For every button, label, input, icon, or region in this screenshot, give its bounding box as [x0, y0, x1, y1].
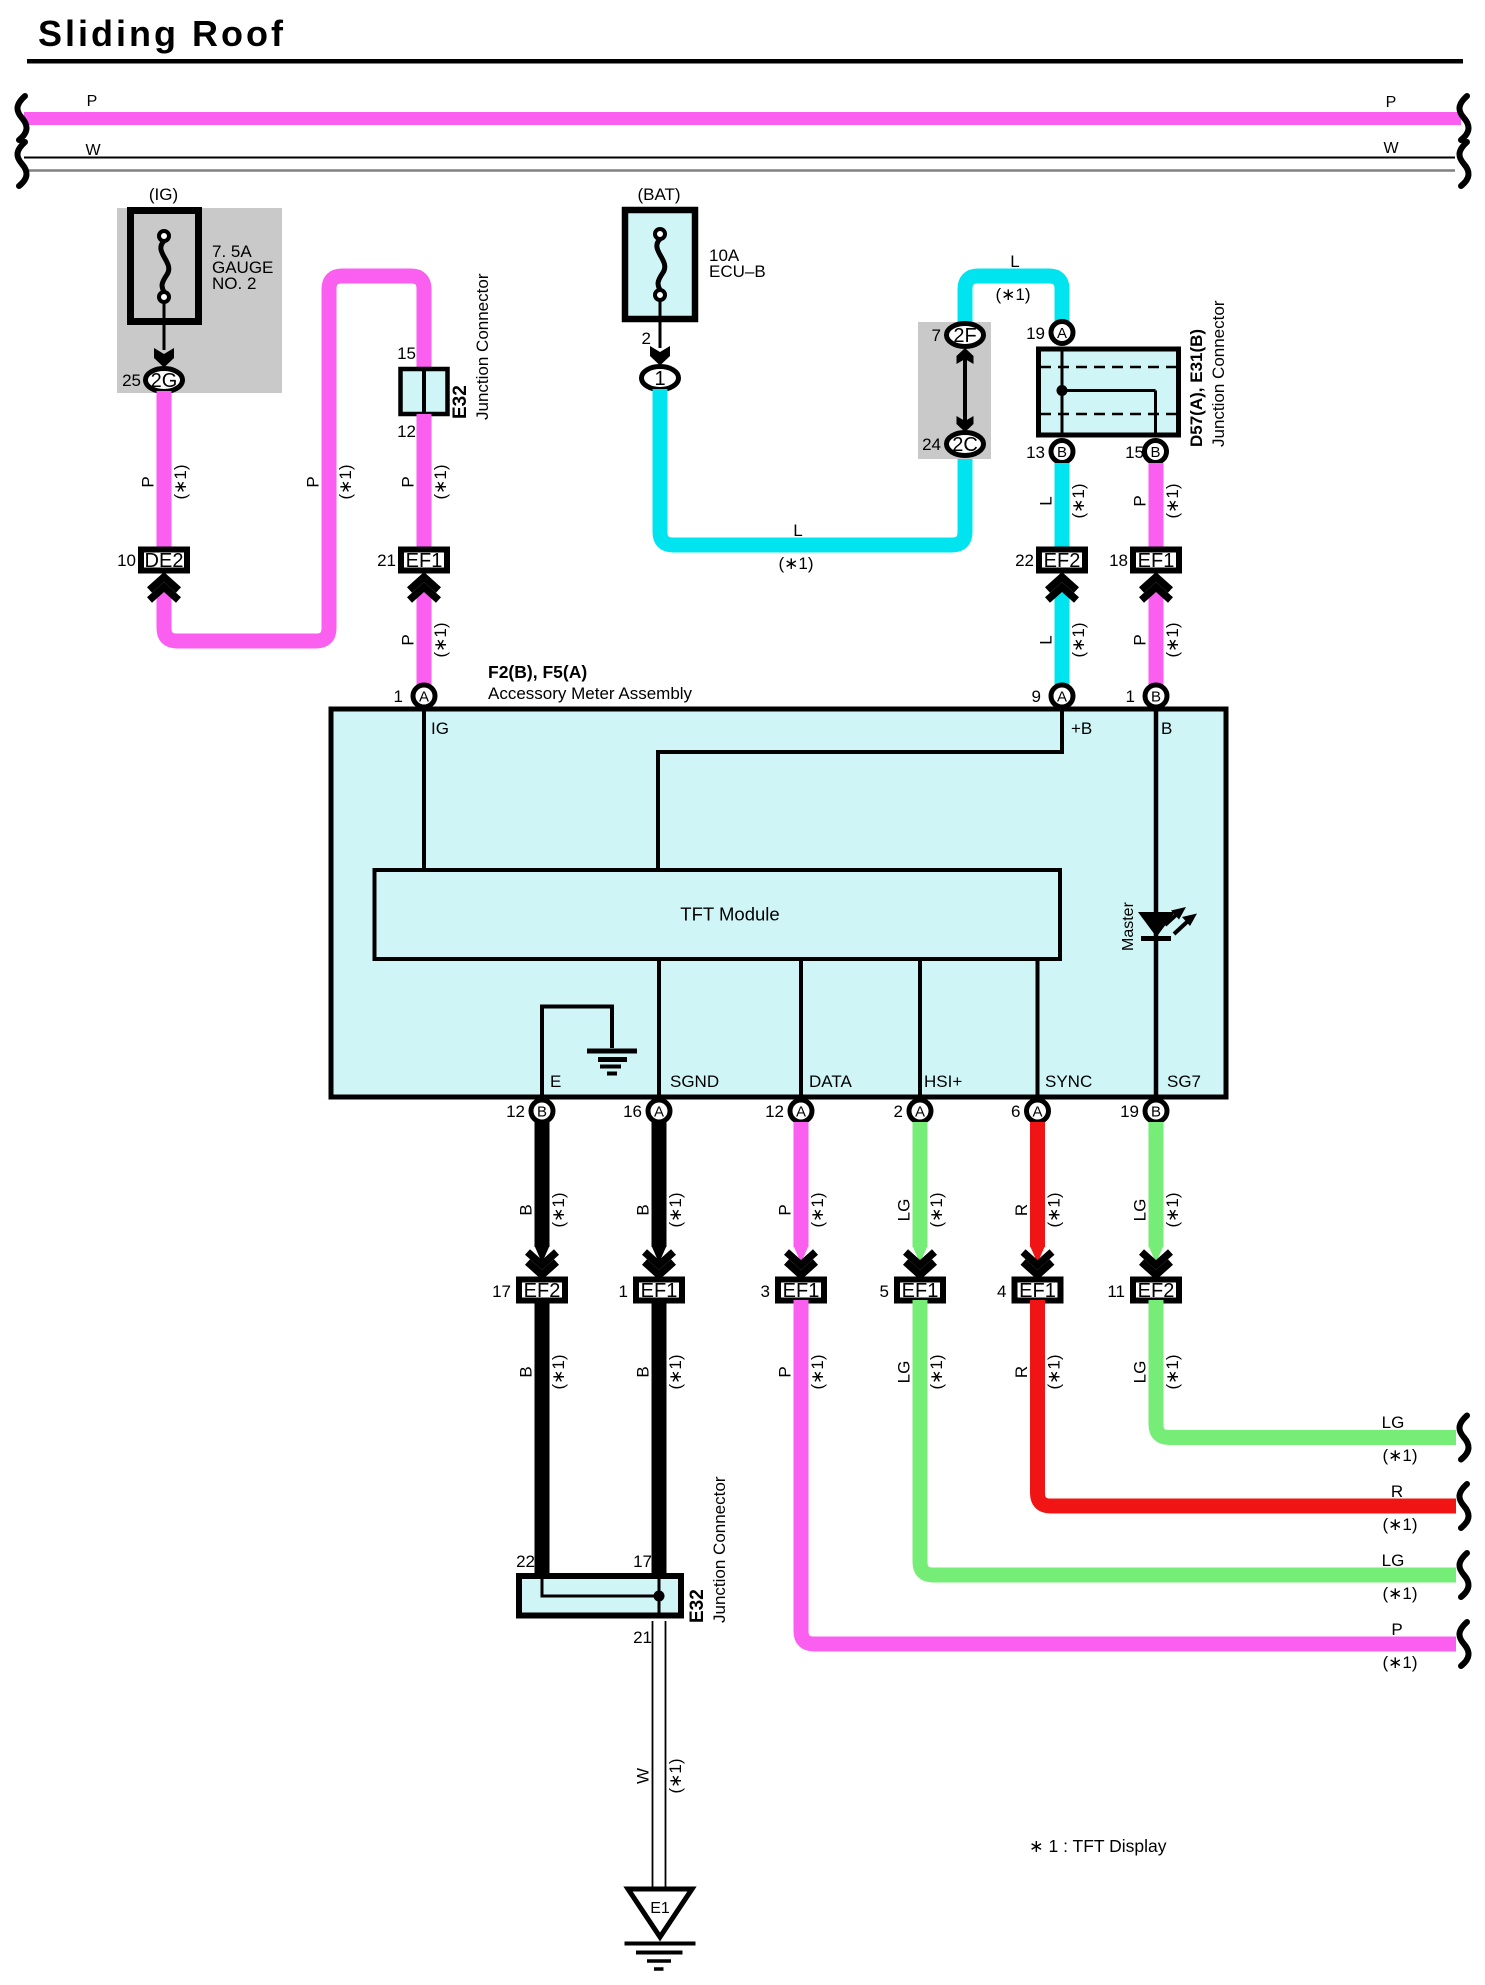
svg-text:(∗1): (∗1): [1069, 483, 1088, 518]
pin label 10: [117, 551, 136, 570]
svg-text:R: R: [1012, 1204, 1031, 1216]
svg-text:4: 4: [997, 1282, 1006, 1301]
arrow into oval 1: [650, 346, 670, 366]
pin circle 16 A: [648, 1100, 670, 1122]
label W right: [1383, 140, 1399, 157]
svg-text:L: L: [1010, 252, 1019, 271]
svg-text:A: A: [654, 1104, 664, 1121]
break symbol P left: [17, 96, 26, 140]
break symbol R: [1459, 1484, 1468, 1528]
gray panel IG: [117, 208, 282, 393]
label D57(A) E31(B): [1187, 329, 1206, 447]
svg-text:18: 18: [1109, 551, 1128, 570]
chevron EF2 11: [1142, 1252, 1171, 1275]
pin circle 1 A: [413, 685, 435, 707]
label E32 top: [450, 385, 471, 419]
svg-text:P: P: [87, 93, 98, 110]
connector EF2 11: [1133, 1280, 1179, 1303]
svg-text:L: L: [1037, 496, 1056, 505]
accessory meter assembly box: [331, 709, 1226, 1097]
svg-text:LG: LG: [1131, 1199, 1150, 1222]
svg-text:EF2: EF2: [524, 1280, 561, 1302]
svg-text:Sliding Roof: Sliding Roof: [38, 13, 286, 54]
svg-text:∗ 1 : TFT Display: ∗ 1 : TFT Display: [1029, 1836, 1167, 1856]
svg-text:(BAT): (BAT): [637, 185, 680, 204]
svg-text:A: A: [1057, 325, 1067, 342]
junction connector E32 top: [401, 369, 448, 414]
internal wire SYNC: [1036, 961, 1040, 1095]
pin label 17: [492, 1282, 511, 1301]
labels R (*1) SYNC right: [1382, 1482, 1417, 1534]
chevron EF1 21: [410, 577, 439, 600]
labels P (*1) seg1: [139, 464, 191, 499]
label F2(B) F5(A): [488, 662, 587, 682]
labels L (*1) top: [995, 252, 1030, 304]
svg-text:P: P: [1386, 94, 1397, 111]
svg-text:3: 3: [761, 1282, 770, 1301]
internal wire HSI+: [918, 961, 922, 1095]
label (BAT): [637, 185, 680, 204]
fuse value label: [212, 242, 273, 293]
svg-text:B: B: [1151, 689, 1161, 706]
wire W E32 to E1: [653, 1621, 666, 1889]
svg-text:10: 10: [117, 551, 136, 570]
labels P wire DATA upper: [776, 1192, 828, 1227]
svg-text:11: 11: [1107, 1282, 1125, 1301]
labels L (*1) seg6: [1037, 622, 1089, 657]
svg-text:P: P: [776, 1366, 795, 1377]
break symbol W right: [1459, 142, 1468, 186]
svg-text:EF1: EF1: [902, 1280, 939, 1302]
wire LG SG7 to edge: [1156, 1300, 1456, 1438]
svg-text:A: A: [796, 1104, 806, 1121]
pin label 21: [377, 551, 396, 570]
svg-text:B: B: [1150, 444, 1160, 461]
svg-text:A: A: [1057, 689, 1067, 706]
svg-text:D57(A), E31(B): D57(A), E31(B): [1187, 329, 1206, 447]
svg-text:1: 1: [619, 1282, 628, 1301]
svg-text:A: A: [1032, 1104, 1042, 1121]
svg-text:SG7: SG7: [1167, 1072, 1201, 1091]
internal wire B SG7: [1154, 711, 1159, 1095]
svg-text:P: P: [399, 634, 418, 645]
labels LG wire HSI+ upper: [895, 1192, 947, 1227]
svg-text:(∗1): (∗1): [808, 1354, 827, 1389]
pin circle 2 A: [909, 1100, 931, 1122]
svg-text:B: B: [1161, 719, 1172, 738]
svg-text:IG: IG: [431, 719, 449, 738]
pin label 19 B: [1120, 1102, 1139, 1121]
svg-text:B: B: [634, 1204, 653, 1215]
svg-text:17: 17: [492, 1282, 511, 1301]
internal wire SGND: [657, 961, 661, 1095]
svg-text:E32: E32: [450, 385, 471, 419]
pin circle 15 B: [1145, 441, 1167, 463]
pin oval 1: [642, 367, 679, 391]
svg-text:(∗1): (∗1): [1045, 1354, 1064, 1389]
pin circle 19 B: [1145, 1100, 1167, 1122]
svg-text:(∗1): (∗1): [1163, 1354, 1182, 1389]
pin label 21 E32: [633, 1628, 652, 1647]
svg-text:P: P: [776, 1204, 795, 1215]
chevron EF1 5: [906, 1252, 935, 1275]
svg-text:DE2: DE2: [145, 550, 184, 572]
break symbol P right: [1459, 96, 1468, 140]
label HSI+: [924, 1072, 962, 1091]
svg-text:5: 5: [880, 1282, 889, 1301]
label (IG): [149, 185, 178, 204]
svg-text:P: P: [399, 476, 418, 487]
svg-text:EF2: EF2: [1044, 550, 1081, 572]
svg-text:P: P: [139, 476, 158, 487]
pin label 24: [922, 435, 941, 454]
wire L 2F to 19A: [965, 276, 1062, 330]
label DATA: [809, 1072, 852, 1091]
svg-text:B: B: [634, 1366, 653, 1377]
label E: [550, 1072, 561, 1091]
pin label 11: [1107, 1282, 1125, 1301]
pin label 1 A: [394, 687, 403, 706]
svg-text:LG: LG: [1382, 1551, 1405, 1570]
svg-text:B: B: [517, 1366, 536, 1377]
svg-text:LG: LG: [1131, 1361, 1150, 1384]
pin circle 1 B: [1145, 685, 1167, 707]
labels LG (*1) HSI+ lower: [895, 1354, 947, 1389]
connector EF2 22: [1039, 550, 1085, 573]
svg-text:(∗1): (∗1): [666, 1192, 685, 1227]
pin circle 6 A: [1027, 1100, 1049, 1122]
chevron EF1 4: [1023, 1252, 1052, 1275]
wire L oval1 to 2C: [660, 389, 965, 545]
chevron EF1 3: [787, 1252, 816, 1275]
connector EF1 21: [401, 550, 447, 573]
chevron DE2: [150, 577, 179, 600]
svg-text:(∗1): (∗1): [1382, 1653, 1417, 1672]
svg-text:R: R: [1391, 1482, 1403, 1501]
fuse 10A ECU-B box: [625, 210, 695, 319]
svg-text:A: A: [915, 1104, 925, 1121]
junction connector E32 bottom: [519, 1576, 681, 1618]
wire P EF1 to pin 1A: [417, 583, 431, 685]
svg-text:Junction Connector: Junction Connector: [1209, 300, 1228, 447]
labels R wire SYNC upper: [1012, 1192, 1064, 1227]
pin label 17 E32: [633, 1552, 652, 1571]
svg-text:EF1: EF1: [1138, 550, 1175, 572]
wire fuse BAT to oval: [659, 300, 662, 348]
label Junction Connector D57: [1209, 300, 1228, 447]
label Master: [1120, 901, 1137, 951]
label Junction Connector bottom: [710, 1476, 729, 1623]
label SYNC: [1045, 1072, 1092, 1091]
svg-text:TFT Module: TFT Module: [680, 904, 779, 925]
svg-text:(∗1): (∗1): [927, 1354, 946, 1389]
svg-text:(∗1): (∗1): [1382, 1515, 1417, 1534]
connector EF1 18: [1133, 550, 1179, 573]
wire L EF2 to 9A: [1055, 583, 1069, 685]
pin label 15 D57: [1125, 443, 1144, 462]
svg-text:LG: LG: [1382, 1413, 1405, 1432]
labels P (*1) seg2: [304, 464, 356, 499]
label +B: [1071, 719, 1092, 738]
svg-text:B: B: [1057, 444, 1067, 461]
pin label 13: [1026, 443, 1045, 462]
note TFT Display: [1029, 1836, 1167, 1856]
label IG: [431, 719, 449, 738]
pin label 5: [880, 1282, 889, 1301]
pin label 12 B: [506, 1102, 525, 1121]
pin label 4: [997, 1282, 1006, 1301]
labels R (*1) SYNC lower: [1012, 1354, 1064, 1389]
labels P (*1) seg7: [1131, 483, 1183, 518]
svg-text:1: 1: [654, 368, 665, 390]
svg-text:SYNC: SYNC: [1045, 1072, 1092, 1091]
fuse value label BAT: [709, 246, 766, 281]
labels P (*1) seg8: [1131, 622, 1183, 657]
svg-text:W: W: [85, 142, 101, 159]
svg-text:E32: E32: [687, 1589, 708, 1623]
pin circle 13 B: [1051, 441, 1073, 463]
label P right: [1386, 94, 1397, 111]
labels P (*1) DATA right: [1382, 1620, 1417, 1672]
wire R SYNC to edge: [1038, 1300, 1457, 1506]
internal wire IG: [422, 711, 426, 868]
arrow into 2G: [154, 348, 174, 368]
svg-text:B: B: [1151, 1104, 1161, 1121]
svg-text:12: 12: [765, 1102, 784, 1121]
svg-text:(∗1): (∗1): [171, 464, 190, 499]
svg-text:P: P: [1131, 634, 1150, 645]
svg-text:(∗1): (∗1): [549, 1354, 568, 1389]
pin circle 12 A: [790, 1100, 812, 1122]
pin label 1 B: [1126, 687, 1135, 706]
labels P (*1) seg3: [399, 464, 451, 499]
svg-text:6: 6: [1011, 1102, 1020, 1121]
chevron EF1 18: [1142, 577, 1171, 600]
svg-text:(∗1): (∗1): [927, 1192, 946, 1227]
break symbol W left: [17, 142, 26, 186]
pin label 1: [619, 1282, 628, 1301]
svg-text:(∗1): (∗1): [431, 622, 450, 657]
ground E1: [628, 1889, 692, 1937]
svg-text:HSI+: HSI+: [924, 1072, 962, 1091]
svg-text:16: 16: [623, 1102, 642, 1121]
wire P DATA to edge: [801, 1300, 1456, 1644]
connector EF2 17: [519, 1280, 565, 1303]
pin label 12 E32: [397, 422, 416, 441]
svg-text:ECU–B: ECU–B: [709, 262, 766, 281]
svg-text:17: 17: [633, 1552, 652, 1571]
labels LG (*1) SG7 right: [1382, 1413, 1418, 1465]
pin label 22: [1015, 551, 1034, 570]
svg-text:(∗1): (∗1): [778, 554, 813, 573]
svg-text:(∗1): (∗1): [1382, 1446, 1417, 1465]
svg-text:2C: 2C: [952, 434, 978, 456]
wire L 13B to EF2: [1055, 463, 1070, 547]
svg-text:LG: LG: [895, 1361, 914, 1384]
svg-text:B: B: [537, 1104, 547, 1121]
svg-text:+B: +B: [1071, 719, 1092, 738]
svg-text:L: L: [1037, 635, 1056, 644]
internal wire +B: [658, 711, 1062, 868]
svg-text:24: 24: [922, 435, 941, 454]
pin label 25: [122, 371, 141, 390]
svg-text:9: 9: [1032, 687, 1041, 706]
svg-text:W: W: [634, 1768, 653, 1784]
svg-text:(∗1): (∗1): [808, 1192, 827, 1227]
labels B wire E upper: [517, 1192, 569, 1227]
pin label 16: [623, 1102, 642, 1121]
pin circle 19 A: [1051, 322, 1073, 344]
wire P 15B to EF1: [1149, 463, 1164, 547]
svg-text:2F: 2F: [953, 325, 976, 347]
svg-text:W: W: [1383, 140, 1399, 157]
pin circle 9 A: [1051, 685, 1073, 707]
label TFT Module: [680, 904, 779, 925]
labels LG wire SG7 upper: [1131, 1192, 1183, 1227]
connector DE2: [141, 550, 187, 573]
svg-text:(IG): (IG): [149, 185, 178, 204]
svg-text:(∗1): (∗1): [995, 285, 1030, 304]
label E32 bottom: [687, 1589, 708, 1623]
chevron EF2 22: [1048, 577, 1077, 600]
ground symbol E: [587, 1051, 637, 1074]
pin label 9: [1032, 687, 1041, 706]
pin label 2: [642, 329, 651, 348]
svg-text:Junction Connector: Junction Connector: [710, 1476, 729, 1623]
label W left: [85, 142, 101, 159]
svg-text:EF1: EF1: [406, 550, 443, 572]
labels L (*1) horizontal: [778, 521, 813, 573]
svg-text:(∗1): (∗1): [1163, 1192, 1182, 1227]
internal wire DATA: [799, 961, 803, 1095]
pin label 2 A: [894, 1102, 903, 1121]
pin label 15 E32: [397, 344, 416, 363]
wire P E32 to EF1: [417, 414, 432, 547]
svg-text:25: 25: [122, 371, 141, 390]
svg-text:19: 19: [1026, 324, 1045, 343]
junction connector D57: [1039, 349, 1179, 435]
labels L (*1) seg5: [1037, 483, 1089, 518]
pin label 12 A: [765, 1102, 784, 1121]
svg-text:15: 15: [397, 344, 416, 363]
labels B wire SGND upper: [634, 1192, 686, 1227]
LED Master: [1138, 907, 1197, 939]
svg-text:(∗1): (∗1): [666, 1758, 685, 1793]
svg-text:13: 13: [1026, 443, 1045, 462]
TFT Module box: [375, 870, 1061, 959]
wire P 2G to DE2: [157, 391, 172, 547]
svg-text:21: 21: [633, 1628, 652, 1647]
svg-text:L: L: [793, 521, 802, 540]
svg-text:12: 12: [506, 1102, 525, 1121]
svg-text:DATA: DATA: [809, 1072, 852, 1091]
label SG7: [1167, 1072, 1201, 1091]
connector EF1 3: [778, 1280, 824, 1303]
wire R wire SYNC stub: [1031, 1122, 1045, 1263]
svg-text:(∗1): (∗1): [1163, 483, 1182, 518]
labels B (*1) SGND lower: [634, 1354, 686, 1389]
label Accessory Meter Assembly: [488, 684, 693, 703]
labels P (*1) seg4: [399, 622, 451, 657]
double arrow 2F 2C: [957, 348, 974, 432]
chevron EF2 17: [528, 1252, 557, 1275]
svg-text:22: 22: [516, 1552, 535, 1571]
wire fuse IG to 2G: [163, 302, 166, 350]
svg-text:(∗1): (∗1): [1069, 622, 1088, 657]
labels LG (*1) SG7 lower: [1131, 1354, 1183, 1389]
svg-text:EF1: EF1: [641, 1280, 678, 1302]
ground symbol E1: [625, 1944, 696, 1970]
svg-text:E: E: [550, 1072, 561, 1091]
svg-text:A: A: [419, 689, 429, 706]
connector EF1 4: [1015, 1280, 1061, 1303]
wire P wire DATA stub: [794, 1122, 808, 1263]
chevron EF1 1: [645, 1252, 674, 1275]
wire P EF1 to 1B: [1149, 583, 1163, 685]
pin label 6: [1011, 1102, 1020, 1121]
svg-text:1: 1: [394, 687, 403, 706]
wire B wire SGND stub: [652, 1122, 666, 1263]
svg-text:(∗1): (∗1): [666, 1354, 685, 1389]
wire B wire E stub: [535, 1122, 549, 1263]
gray panel 2F 2C: [918, 322, 991, 459]
fuse 7.5A GAUGE NO.2 box: [131, 211, 199, 322]
wire B E to E32: [535, 1300, 550, 1576]
svg-text:EF1: EF1: [1019, 1280, 1056, 1302]
svg-text:12: 12: [397, 422, 416, 441]
pin label 3: [761, 1282, 770, 1301]
svg-text:EF1: EF1: [783, 1280, 820, 1302]
pin oval 2F: [947, 324, 984, 348]
pin oval 2C: [947, 433, 984, 457]
connector EF1 1: [636, 1280, 682, 1303]
svg-text:P: P: [1131, 495, 1150, 506]
svg-text:21: 21: [377, 551, 396, 570]
svg-text:(∗1): (∗1): [1045, 1192, 1064, 1227]
pin label 7: [932, 326, 941, 345]
break symbol LG upper: [1459, 1416, 1468, 1460]
svg-text:LG: LG: [895, 1199, 914, 1222]
labels B (*1) E lower: [517, 1354, 569, 1389]
labels LG (*1) HSI+ right: [1382, 1551, 1418, 1603]
wire P DE2 loop to E32: [157, 276, 424, 641]
svg-text:15: 15: [1125, 443, 1144, 462]
svg-text:P: P: [304, 476, 323, 487]
svg-text:SGND: SGND: [670, 1072, 719, 1091]
svg-text:2: 2: [642, 329, 651, 348]
connector EF1 5: [897, 1280, 943, 1303]
svg-text:NO. 2: NO. 2: [212, 274, 256, 293]
svg-text:(∗1): (∗1): [336, 464, 355, 499]
svg-text:P: P: [1391, 1620, 1402, 1639]
svg-text:2G: 2G: [151, 370, 178, 392]
svg-text:22: 22: [1015, 551, 1034, 570]
svg-text:R: R: [1012, 1366, 1031, 1378]
wire bus W: [24, 158, 1455, 171]
svg-text:(∗1): (∗1): [431, 464, 450, 499]
pin label 22 E32: [516, 1552, 535, 1571]
label P left: [87, 93, 98, 110]
pin label 18: [1109, 551, 1128, 570]
svg-text:(∗1): (∗1): [1163, 622, 1182, 657]
svg-text:Accessory Meter Assembly: Accessory Meter Assembly: [488, 684, 693, 703]
fuse element IG: [159, 231, 169, 302]
label SGND: [670, 1072, 719, 1091]
svg-text:F2(B), F5(A): F2(B), F5(A): [488, 662, 587, 682]
svg-text:Junction Connector: Junction Connector: [473, 273, 492, 420]
labels P (*1) DATA lower: [776, 1354, 828, 1389]
svg-text:(∗1): (∗1): [1382, 1584, 1417, 1603]
